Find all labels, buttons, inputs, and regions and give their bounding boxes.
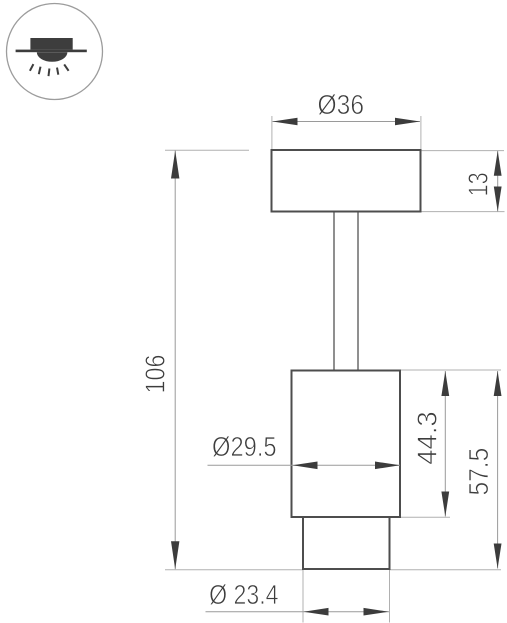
svg-text:Ø 23.4: Ø 23.4 [209,579,278,610]
svg-text:Ø29.5: Ø29.5 [212,431,277,462]
svg-text:57.5: 57.5 [463,448,494,496]
svg-text:Ø36: Ø36 [318,89,365,120]
svg-text:106: 106 [140,355,171,394]
svg-text:44.3: 44.3 [412,411,443,464]
svg-text:13: 13 [463,172,494,196]
